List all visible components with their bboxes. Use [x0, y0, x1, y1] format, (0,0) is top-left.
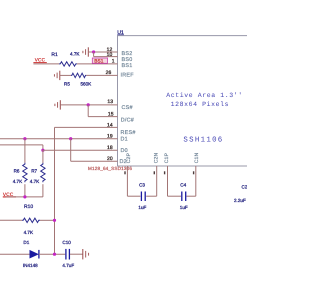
ground G1 (BS2/BS0)	[83, 47, 88, 56]
capacitor C4	[168, 166, 196, 210]
svg-text:R7: R7	[31, 169, 37, 174]
svg-text:IN4148: IN4148	[23, 263, 38, 268]
junction R6 bottom	[23, 195, 26, 198]
svg-text:D1: D1	[121, 136, 128, 142]
wire VCC rail	[6, 196, 43, 198]
svg-text:C2: C2	[242, 185, 248, 190]
junction CS node	[87, 103, 90, 106]
svg-text:C3: C3	[139, 182, 145, 187]
wire C10 to ground	[70, 253, 83, 255]
resistor R7	[30, 150, 45, 197]
resistor R1	[51, 51, 80, 66]
svg-text:C2P: C2P	[126, 152, 132, 163]
junction R7 top	[41, 149, 44, 152]
junction BS2/BS0 node	[92, 50, 95, 53]
svg-text:R6: R6	[14, 169, 20, 174]
svg-text:128x64 Pixels: 128x64 Pixels	[171, 101, 230, 108]
junction RES#-D1-C10	[53, 253, 56, 256]
wire D0 feed horizontal	[0, 144, 43, 146]
svg-text:4.7uF: 4.7uF	[62, 263, 74, 268]
svg-text:1uF: 1uF	[138, 205, 146, 210]
svg-text:C4: C4	[180, 182, 186, 187]
svg-text:Active Area 1.3'': Active Area 1.3''	[166, 92, 243, 99]
wire to diode D1	[0, 253, 30, 255]
svg-text:560K: 560K	[81, 81, 93, 86]
wire D2 link vertical	[70, 139, 72, 162]
capacitor C10	[62, 240, 74, 268]
svg-text:13: 13	[107, 99, 113, 105]
svg-text:SSH1106: SSH1106	[183, 137, 223, 145]
wire G3 to pin 13	[60, 104, 117, 106]
resistor R10	[0, 204, 55, 235]
capacitor C2 labels (cut off at right edge)	[234, 185, 248, 204]
svg-text:BS1: BS1	[122, 63, 133, 69]
wire R1 to pin 11	[77, 63, 118, 65]
svg-text:4.7K: 4.7K	[24, 230, 34, 235]
net label BS1 (highlighted)	[92, 58, 107, 65]
svg-text:IREF: IREF	[121, 73, 135, 79]
wire RES# vertical	[54, 127, 56, 254]
IC U1 body	[118, 36, 248, 166]
svg-text:2.2uF: 2.2uF	[234, 198, 246, 203]
svg-text:C10: C10	[62, 240, 71, 245]
wire vertical BS node	[93, 52, 95, 57]
resistor R5	[64, 73, 92, 86]
junction D1-D2 link	[69, 137, 72, 140]
capacitor C3	[127, 166, 156, 210]
wire to pin 15	[88, 116, 117, 118]
svg-text:RES#: RES#	[121, 130, 136, 136]
power VCC (bottom)	[3, 192, 16, 198]
ground G4 (C10)	[83, 249, 89, 259]
resistor R6	[13, 139, 27, 197]
wire to pin 10	[94, 56, 118, 58]
svg-text:R5: R5	[64, 81, 70, 86]
ground G2 (IREF)	[54, 71, 59, 80]
svg-text:BS2: BS2	[122, 51, 133, 57]
svg-text:4.7K: 4.7K	[13, 179, 23, 184]
svg-text:R1: R1	[51, 52, 58, 58]
power VCC (top)	[33, 58, 46, 64]
junction R10-RES#	[53, 219, 56, 222]
svg-text:R10: R10	[24, 204, 33, 210]
svg-text:4.7K: 4.7K	[70, 51, 80, 56]
svg-text:C2N: C2N	[154, 152, 160, 163]
svg-text:C1N: C1N	[194, 152, 200, 163]
svg-text:C1P: C1P	[164, 152, 170, 163]
wire G1 to pin 12	[88, 51, 117, 53]
ground G3 (CS#/D-C#)	[55, 100, 60, 109]
svg-text:1uF: 1uF	[180, 205, 188, 210]
wire R5 to pin 26	[86, 74, 117, 76]
svg-text:CS#: CS#	[122, 105, 133, 111]
wire D0 row to pin 18	[43, 149, 118, 151]
svg-text:D/C#: D/C#	[121, 118, 134, 124]
wire D1 to C10	[39, 253, 65, 255]
wire D2 row to pin 20	[71, 160, 118, 162]
wire vertical CS to DC	[87, 105, 89, 117]
junction R6 top	[23, 137, 26, 140]
svg-text:4.7K: 4.7K	[30, 179, 40, 184]
wire G2 to R5	[60, 74, 71, 76]
svg-text:M128_64_SSD1306: M128_64_SSD1306	[88, 166, 132, 171]
refdes U1	[117, 30, 124, 36]
wire D0 feed vertical	[42, 145, 44, 150]
bottom pin number marks	[124, 171, 194, 174]
svg-text:BS1: BS1	[94, 59, 103, 65]
wire VCC to R1	[33, 63, 59, 65]
diode D1	[23, 240, 39, 268]
wire RES# horizontal to pin 14	[55, 126, 118, 128]
wire D1 row to pin 19	[0, 138, 118, 140]
svg-text:D1: D1	[23, 240, 29, 245]
